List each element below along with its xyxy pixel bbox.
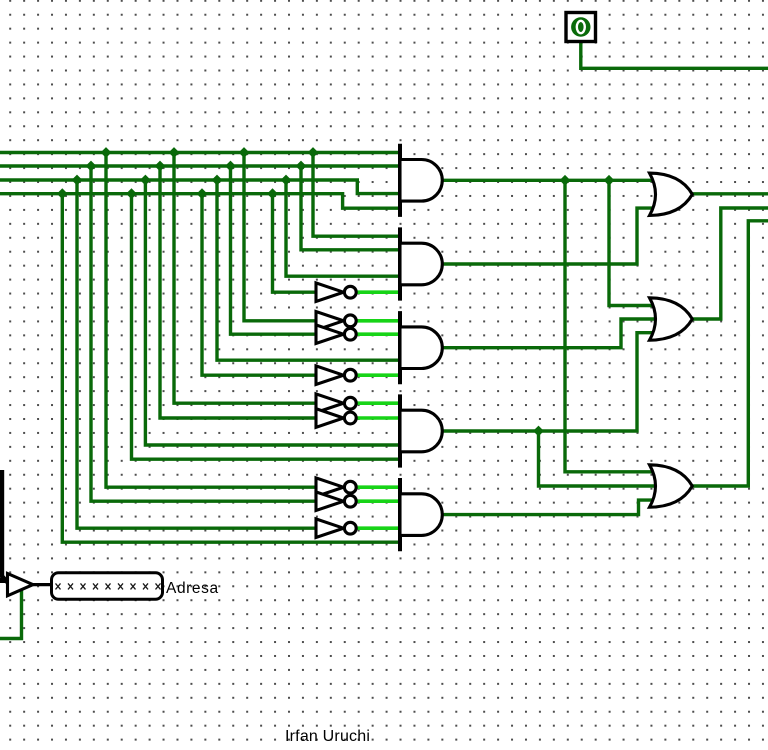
wire NOT4 output (high) to AND3 input 5: [357, 373, 401, 377]
wire vertical tap w1 to NOT5 input: [174, 153, 316, 404]
wire vertical tap w3 to NOT9 input: [77, 180, 316, 528]
node w3 tap A: [72, 175, 83, 186]
wire vertical tap w2 to NOT3 input: [231, 166, 317, 334]
wire vertical tap w4 to NOT1 input: [273, 194, 317, 293]
wire OR2 output up to east edge: [692, 208, 768, 319]
or-gate U7 body: [650, 298, 693, 340]
not-gate N4 triangle: [316, 366, 344, 385]
wire OR3 output up to east edge: [691, 221, 768, 486]
wire AND3 output up to OR2 input 2: [440, 319, 654, 348]
and-gate U4 input line: [398, 394, 402, 467]
node w1 tap A: [101, 147, 112, 158]
wire NOT7 output (high) to AND5 input 1: [357, 485, 401, 489]
node w1 tap D: [308, 147, 319, 158]
not-gate N5 bubble: [344, 397, 356, 409]
node w1 tap C: [239, 147, 250, 158]
node w2 tap B: [155, 161, 166, 172]
wire node at x=565 down to OR3 input 1: [565, 180, 654, 472]
wire NOT5 output (high) to AND4 input 1: [357, 401, 401, 405]
not-gate N9 triangle: [316, 519, 344, 538]
svg-text:Irfan Uruchi: Irfan Uruchi: [285, 728, 370, 745]
wire AND5 output up to OR3 input 3: [441, 500, 654, 514]
wire OR1 output to east edge: [692, 192, 768, 195]
wire vertical tap w2 to AND2 input 2: [301, 166, 400, 250]
node w4 tap D: [267, 188, 278, 199]
wire vertical tap w4 to AND5 input 4: [62, 194, 400, 543]
node w3 tap C: [212, 175, 223, 186]
node w4 tap A: [57, 188, 68, 199]
not-gate N9 bubble: [344, 522, 356, 534]
wire NOT3 output (high) to AND3 input 2: [357, 332, 401, 336]
and-gate U3 input line: [398, 311, 402, 384]
wire vertical tap w3 to AND4 input 3: [145, 180, 400, 445]
wire buffer to probe (black): [33, 583, 52, 586]
wire NOT6 output (high) to AND4 input 2: [357, 416, 401, 420]
not-gate N1 bubble: [344, 286, 356, 298]
wire vertical tap w3 to AND3 input 3: [217, 180, 400, 360]
wire vertical tap w1 to NOT7 input: [106, 153, 316, 488]
node on AND4 output at x=538: [533, 426, 544, 437]
node w4 tap B: [126, 188, 137, 199]
wire bus w2: [0, 164, 400, 167]
and-gate U1 body: [400, 160, 442, 202]
node on AND1 output at x=609: [604, 175, 615, 186]
not-gate N6 triangle: [316, 409, 344, 428]
not-gate N8 triangle: [316, 492, 344, 511]
not-gate N2 triangle: [316, 312, 344, 331]
node w2 tap D: [296, 161, 307, 172]
wire NOT1 output (high) to AND2 input 5: [357, 290, 401, 294]
and-gate U3 body: [400, 327, 442, 369]
wire NOT9 output (high) to AND5 input 3: [357, 526, 401, 530]
wire NOT2 output (high) to AND3 input 1: [357, 319, 401, 323]
node w3 tap B: [140, 175, 151, 186]
wire from input pin down and right to east edge: [581, 42, 768, 69]
wire NOT8 output (high) to AND5 input 2: [357, 499, 401, 503]
wire AND2 output up to OR1 input 2: [441, 208, 654, 264]
and-gate U2 body: [400, 243, 442, 285]
wire vertical tap w4 to AND4 input 4: [132, 194, 401, 460]
not-gate N2 bubble: [344, 315, 356, 327]
node w3 tap D: [281, 175, 292, 186]
node on AND1 output at x=565: [560, 175, 571, 186]
wire vertical tap w2 to NOT8 input: [91, 166, 316, 501]
wire vertical tap w4 to NOT4 input: [202, 194, 316, 376]
not-gate N3 bubble: [344, 328, 356, 340]
wire bus w3 with jog down into AND1 input 3: [0, 180, 400, 194]
and-gate U5 body: [400, 494, 442, 536]
or-gate U8 body: [650, 465, 693, 507]
svg-text:Adresa: Adresa: [166, 580, 219, 597]
buffer triangle feeding probe: [8, 574, 34, 596]
probe Adresa body: [52, 573, 163, 599]
input pin P1 value circle: [571, 17, 590, 36]
not-gate N5 triangle: [316, 394, 344, 413]
wire AND4 output up to OR2 input 3: [441, 333, 654, 431]
and-gate U2 input line: [398, 227, 402, 300]
wire node at x=609 down to OR2 input 1: [609, 180, 654, 305]
wire vertical tap w1 to NOT2 input: [244, 153, 316, 321]
and-gate U4 body: [400, 410, 442, 452]
wire vertical tap w2 to NOT6 input: [160, 166, 316, 418]
wire at splitter going down and west to edge: [0, 588, 22, 639]
node w2 tap C: [225, 161, 236, 172]
wire node on AND4 output down to OR3 input 2: [539, 431, 655, 486]
wire AND1 output to OR1 input 1: [441, 179, 654, 182]
not-gate N8 bubble: [344, 495, 356, 507]
probe value xxxxxxxxx: [56, 583, 161, 589]
not-gate N7 bubble: [344, 481, 356, 493]
and-gate U5 input line: [398, 478, 402, 551]
not-gate N1 triangle: [316, 283, 344, 302]
splitter nub: [0, 578, 5, 584]
or-gate U6 body: [650, 173, 693, 215]
wire bus w4 with jog down into AND1 input 4: [0, 194, 400, 209]
not-gate N4 bubble: [344, 369, 356, 381]
node w4 tap C: [197, 188, 208, 199]
wire bus w1: [0, 151, 400, 154]
splitter bus stub at west edge: [2, 470, 8, 583]
wire vertical tap w3 to AND2 input 3: [286, 180, 400, 276]
not-gate N3 triangle: [316, 325, 344, 344]
input pin P1 value 0: [577, 21, 585, 33]
input pin P1 box: [566, 13, 596, 42]
node w2 tap A: [86, 161, 97, 172]
not-gate N6 bubble: [344, 412, 356, 424]
node w1 tap B: [169, 147, 180, 158]
wire vertical tap w1 to AND2 input 1: [313, 153, 400, 237]
not-gate N7 triangle: [316, 478, 344, 497]
and-gate U1 input line: [398, 144, 402, 217]
